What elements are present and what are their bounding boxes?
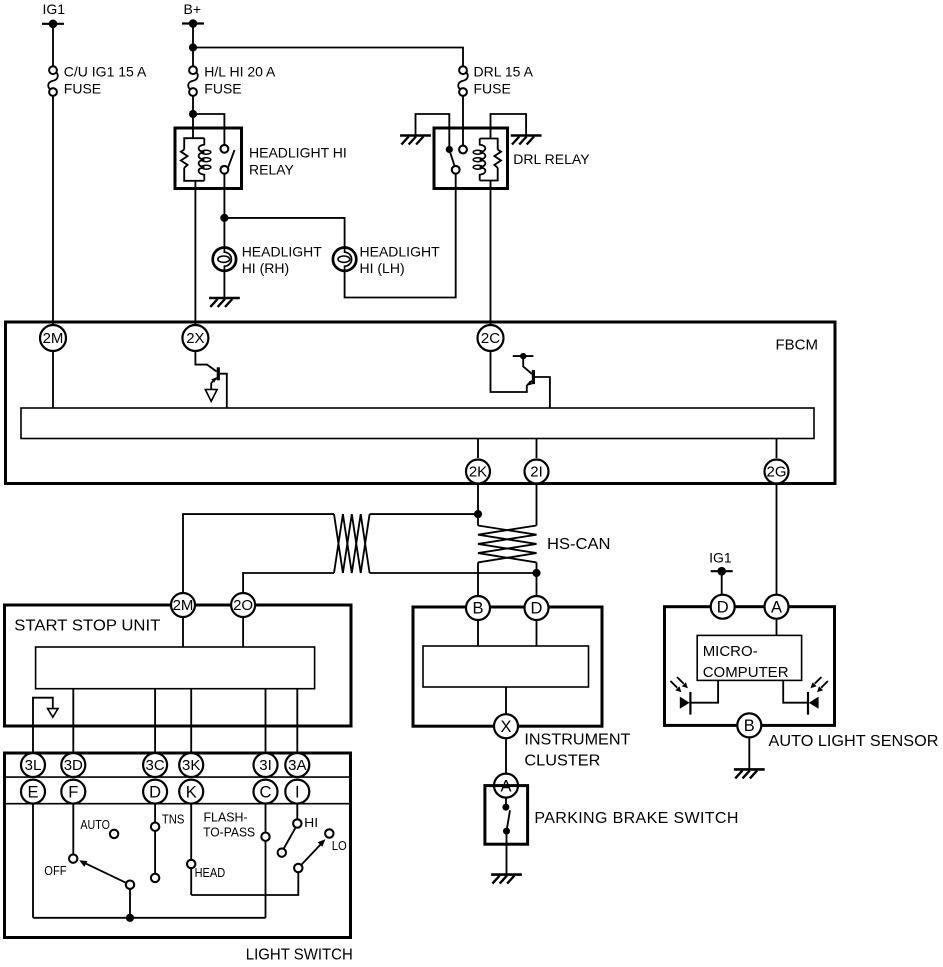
transistor FBCM output 2X	[195, 351, 226, 408]
wire IG1 to fuse	[52, 24, 54, 67]
AUTO LIGHT SENSOR box	[665, 607, 939, 750]
contact AUTO	[80, 817, 118, 838]
wire pin F to OFF contact	[72, 804, 74, 855]
pin 2G	[765, 460, 789, 484]
svg-text:3D: 3D	[64, 757, 83, 774]
PARKING BRAKE SWITCH box	[485, 786, 739, 845]
pin 3K	[179, 753, 203, 777]
junction CAN low	[532, 569, 540, 577]
svg-text:2C: 2C	[481, 330, 500, 347]
pin I	[285, 780, 309, 804]
svg-text:C: C	[260, 783, 272, 801]
svg-text:2M: 2M	[43, 330, 64, 347]
wire IG1 to sensor pin D	[721, 571, 723, 595]
svg-text:TO-PASS: TO-PASS	[203, 825, 255, 840]
light switch row line upper	[5, 776, 351, 778]
relay switch contacts	[221, 145, 235, 174]
svg-text:IG1: IG1	[709, 550, 732, 566]
wire fuse to FBCM pin 2M	[52, 96, 54, 325]
svg-text:I: I	[295, 783, 300, 801]
svg-text:2I: 2I	[530, 464, 543, 481]
wire bus to pin 2G	[776, 439, 778, 459]
junction CAN high	[474, 510, 482, 518]
svg-text:C/U IG1 15 A: C/U IG1 15 A	[64, 64, 147, 80]
wire H/L fuse to relay junction	[192, 96, 194, 114]
svg-text:FUSE: FUSE	[64, 81, 101, 97]
ground RH headlight	[209, 298, 240, 307]
transistor FBCM output 2C	[513, 353, 550, 408]
svg-text:HI (RH): HI (RH)	[242, 260, 289, 276]
svg-text:HEADLIGHT: HEADLIGHT	[360, 243, 441, 259]
pin E	[21, 780, 45, 804]
wire pin B to ground	[748, 737, 750, 769]
lamp HEADLIGHT HI (RH)	[213, 243, 323, 276]
FBCM box	[6, 322, 836, 484]
wire RH bulb to ground	[223, 271, 225, 298]
wire junction to relay coil	[192, 114, 194, 139]
wire module to pin X	[505, 687, 507, 715]
parking brake switch contacts	[502, 798, 510, 835]
wire parking brake to ground	[506, 835, 508, 875]
contact FLASH-TO-PASS	[203, 804, 270, 918]
svg-text:FUSE: FUSE	[474, 81, 511, 97]
pin D	[525, 596, 549, 620]
svg-text:3I: 3I	[259, 757, 272, 774]
dimmer blade with arrow to LO	[294, 839, 325, 872]
pin B sensor	[737, 713, 761, 737]
pin B	[466, 596, 490, 620]
pin F	[61, 780, 85, 804]
pin 2M start stop	[171, 593, 195, 617]
pin 2M	[40, 325, 66, 351]
wire HEAD to dimmer pivot	[191, 872, 298, 895]
START STOP UNIT box	[5, 605, 352, 726]
wire CAN high to pin 2M start stop	[183, 514, 334, 593]
svg-text:B: B	[472, 600, 483, 618]
pin X	[494, 714, 518, 738]
pin D sensor	[711, 595, 735, 619]
wire LH bulb to DRL relay switch	[345, 174, 456, 298]
FBCM internal bus bar	[21, 408, 814, 439]
wire pin E to common	[32, 804, 34, 918]
pin 3I	[254, 753, 278, 777]
pin D light switch	[143, 780, 167, 804]
INSTRUMENT CLUSTER box	[413, 607, 631, 770]
wire pin X to parking brake pin A	[505, 738, 507, 773]
svg-text:3K: 3K	[182, 757, 200, 774]
pin A sensor	[765, 595, 789, 619]
fuse DRL 15 A	[458, 64, 533, 97]
svg-text:COMPUTER: COMPUTER	[703, 664, 789, 681]
ground DRL relay left	[400, 136, 431, 145]
DRL relay switch contacts	[446, 146, 467, 174]
wire CAN low rail	[243, 573, 334, 593]
svg-text:B+: B+	[184, 1, 202, 17]
lamp HEADLIGHT HI (LH)	[333, 243, 440, 276]
twisted pair horizontal	[334, 514, 370, 573]
wire DRL relay pivot to left ground	[416, 114, 450, 150]
svg-text:LO: LO	[332, 838, 347, 853]
svg-text:FUSE: FUSE	[204, 81, 241, 97]
svg-text:D: D	[717, 598, 729, 616]
wire bus to pin 2I	[536, 439, 538, 459]
svg-text:OFF: OFF	[44, 863, 66, 878]
pin 2K	[466, 460, 490, 484]
svg-text:HI (LH): HI (LH)	[360, 260, 405, 276]
wire B+ to H/L fuse	[192, 24, 194, 67]
wire DRL relay coil to right ground	[491, 114, 527, 139]
node IG1 power terminal	[42, 1, 65, 28]
wire twist to pin D	[536, 562, 538, 596]
pin 3C	[143, 753, 167, 777]
svg-text:AUTO: AUTO	[80, 817, 110, 832]
pin C	[254, 780, 278, 804]
svg-text:2K: 2K	[469, 464, 487, 481]
wire pin 2C to transistor	[491, 351, 527, 392]
junction B+ branch	[189, 43, 197, 51]
LIGHT SWITCH box	[5, 753, 353, 964]
pin 3A	[285, 753, 309, 777]
svg-text:LIGHT SWITCH: LIGHT SWITCH	[246, 947, 353, 964]
photodiode left	[671, 677, 719, 715]
svg-text:2X: 2X	[186, 330, 204, 347]
wire twist to pin B	[477, 562, 479, 596]
svg-text:B: B	[744, 717, 755, 735]
svg-text:HEADLIGHT HI: HEADLIGHT HI	[249, 145, 347, 161]
svg-text:HEADLIGHT: HEADLIGHT	[242, 243, 323, 259]
svg-text:AUTO LIGHT SENSOR: AUTO LIGHT SENSOR	[769, 733, 939, 750]
svg-text:2O: 2O	[233, 597, 253, 614]
svg-text:X: X	[500, 718, 511, 736]
wire bus to pin 2K	[477, 439, 479, 459]
relay HEADLIGHT HI RELAY box	[175, 128, 347, 189]
svg-text:H/L HI 20 A: H/L HI 20 A	[204, 64, 276, 80]
wire relay coil to FBCM pin 2X	[194, 181, 196, 325]
relay DRL RELAY box	[434, 128, 590, 189]
fuse C/U IG1 15 A	[48, 64, 147, 97]
wire module to pin 3C	[154, 689, 156, 753]
contact HEAD	[187, 804, 225, 895]
ground auto light sensor	[734, 769, 765, 778]
pin K	[179, 780, 203, 804]
wire junction to relay switch contact	[193, 114, 224, 145]
junction headlight feed	[220, 214, 228, 222]
svg-text:FBCM: FBCM	[776, 337, 819, 354]
pin 2O start stop	[231, 593, 255, 617]
contact TNS	[151, 804, 185, 883]
wire pin 2O to module	[242, 617, 244, 647]
ground DRL relay right	[511, 136, 542, 145]
node IG1 terminal at sensor	[709, 550, 733, 576]
svg-text:3A: 3A	[288, 757, 306, 774]
wire pin B to module	[477, 620, 479, 646]
wire CAN low to instrument cluster	[370, 572, 537, 574]
svg-text:PARKING BRAKE SWITCH: PARKING BRAKE SWITCH	[534, 810, 738, 827]
DRL relay coil (inductor + resistor)	[473, 139, 501, 181]
svg-text:F: F	[68, 783, 78, 801]
instrument cluster inner module	[423, 646, 589, 687]
wire switch common rail	[33, 917, 266, 919]
wire DRL relay coil to FBCM pin 2C	[490, 181, 492, 326]
contact LO	[325, 829, 347, 853]
light switch row line lower	[5, 803, 351, 805]
svg-text:2G: 2G	[766, 464, 786, 481]
svg-text:INSTRUMENT: INSTRUMENT	[524, 732, 630, 749]
junction relay feed	[189, 110, 197, 118]
junction switch common	[126, 914, 134, 922]
MICRO-COMPUTER module	[697, 635, 801, 681]
wire B+ branch to DRL fuse	[193, 48, 463, 67]
wire pin 2M to module	[182, 617, 184, 647]
svg-text:D: D	[531, 600, 543, 618]
pin 2I	[525, 460, 549, 484]
twisted pair vertical HS-CAN	[478, 526, 611, 563]
wire pin 2M to bus	[52, 351, 54, 408]
contact HI	[278, 804, 319, 857]
wire module to pin 3I	[265, 689, 267, 753]
ground parking brake switch	[491, 875, 522, 884]
pin 2X	[182, 325, 208, 351]
pin A parking brake	[494, 774, 518, 798]
svg-text:CLUSTER: CLUSTER	[524, 753, 600, 770]
wire DRL fuse to DRL relay contact	[462, 96, 464, 146]
svg-text:MICRO-: MICRO-	[703, 643, 758, 660]
wire pin 3L stub with arrow	[33, 698, 58, 753]
svg-text:START STOP UNIT: START STOP UNIT	[14, 618, 160, 635]
pin 3D	[61, 753, 85, 777]
wire pin D to module	[536, 620, 538, 646]
wire pin 2K to CAN junction	[477, 484, 479, 526]
svg-text:DRL RELAY: DRL RELAY	[513, 151, 590, 167]
svg-text:2M: 2M	[173, 597, 194, 614]
svg-text:A: A	[771, 598, 782, 616]
pin 3L	[21, 753, 45, 777]
relay coil (resistor + inductor)	[181, 138, 211, 181]
svg-text:3L: 3L	[25, 757, 42, 774]
node B+ power terminal	[182, 1, 204, 28]
svg-text:HI: HI	[304, 815, 318, 830]
wire pin 2G to auto light sensor pin A	[776, 484, 778, 595]
wire pin 2I into twist	[536, 484, 538, 526]
wire junction to LH bulb	[224, 218, 344, 248]
svg-text:TNS: TNS	[162, 811, 185, 826]
svg-text:HS-CAN: HS-CAN	[547, 536, 611, 553]
rotary switch blade with arrow	[79, 860, 134, 918]
svg-text:HEAD: HEAD	[195, 865, 226, 880]
wire relay switch to headlight junction	[223, 174, 225, 218]
svg-text:K: K	[186, 783, 197, 801]
svg-text:DRL 15 A: DRL 15 A	[474, 64, 534, 80]
wire CAN high rail to start stop unit	[370, 513, 478, 515]
wire pin A to micro-computer	[776, 619, 778, 636]
wire module to pin 3A	[296, 689, 298, 753]
START STOP inner module	[36, 647, 315, 689]
fuse H/L HI 20 A	[188, 64, 276, 97]
svg-text:IG1: IG1	[43, 1, 66, 17]
pin 2C	[478, 325, 504, 351]
svg-text:RELAY: RELAY	[249, 162, 295, 178]
wire module to pin 3D	[72, 689, 74, 753]
svg-text:D: D	[149, 783, 161, 801]
contact OFF	[44, 854, 77, 877]
svg-text:FLASH-: FLASH-	[204, 810, 248, 825]
svg-text:3C: 3C	[146, 757, 165, 774]
wire module to pin 3K	[190, 689, 192, 753]
wire junction to RH bulb	[223, 218, 225, 248]
svg-text:E: E	[27, 783, 38, 801]
photodiode right	[783, 677, 828, 715]
